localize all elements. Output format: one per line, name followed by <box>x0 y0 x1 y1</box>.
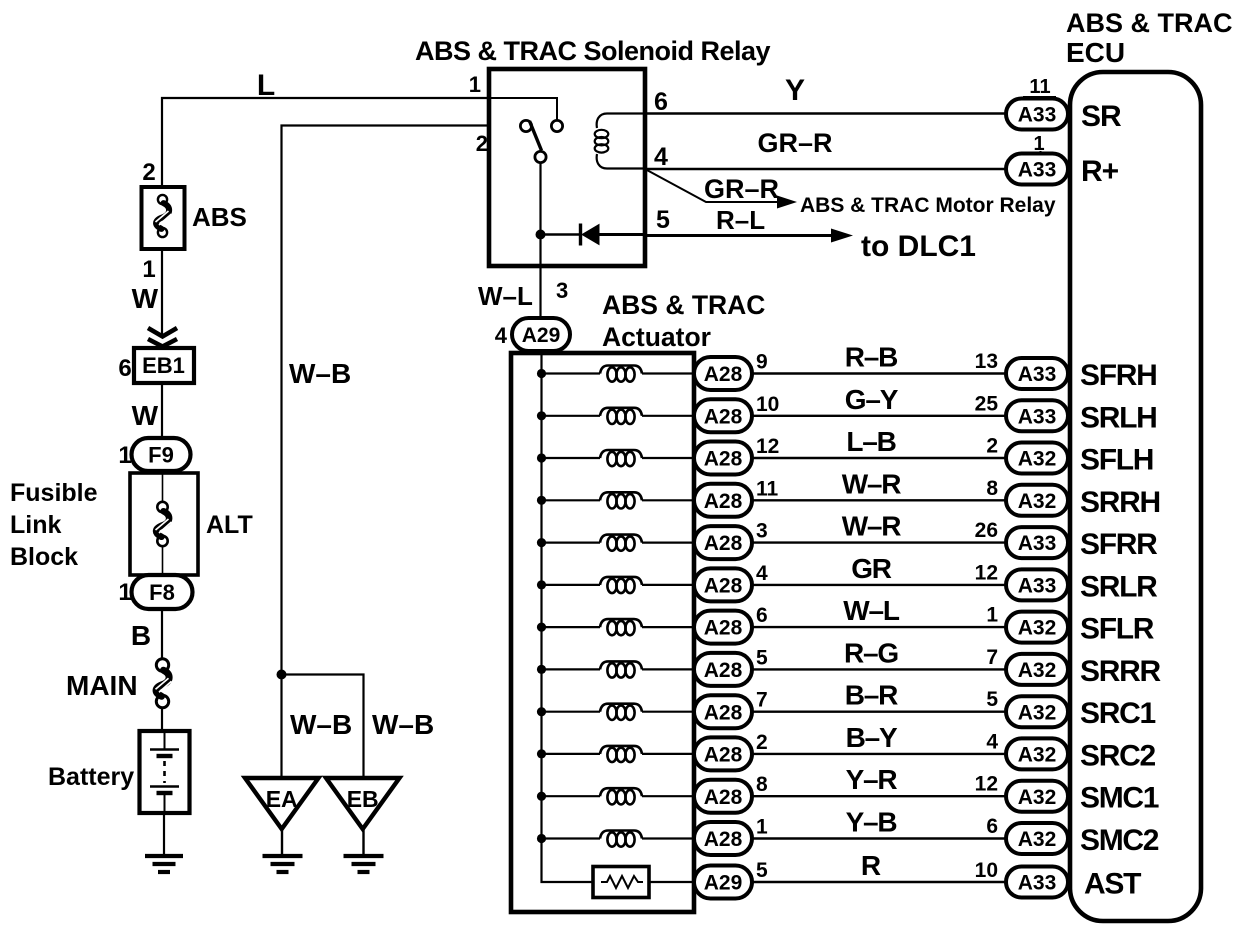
svg-text:2: 2 <box>986 435 998 458</box>
svg-text:EB1: EB1 <box>142 353 185 378</box>
wire bus (actuator feed) <box>542 353 594 882</box>
svg-text:SMC1: SMC1 <box>1080 782 1159 815</box>
label SMC1 (ECU pin name) <box>1080 782 1159 815</box>
battery <box>140 731 190 813</box>
solenoid coil (SFRR valve) <box>537 535 695 551</box>
label W-B (EB branch) <box>372 709 434 740</box>
wire W&#8211;L (SFLR) <box>752 626 1006 628</box>
svg-text:GR–R: GR–R <box>704 174 779 204</box>
title ABS & TRAC ECU <box>1066 8 1233 68</box>
node (relay pin 3 junction) <box>536 230 546 240</box>
svg-text:A28: A28 <box>704 532 743 555</box>
svg-text:SRRR: SRRR <box>1080 655 1161 688</box>
svg-text:6: 6 <box>756 604 768 627</box>
connector A28 (SFLR) <box>694 611 752 644</box>
connector A28 (SRRH) <box>694 484 752 517</box>
label 11 (ECU SR pin) <box>1023 76 1056 98</box>
svg-text:W: W <box>132 400 159 431</box>
connector A33 (R+) <box>1006 154 1068 185</box>
svg-text:25: 25 <box>975 392 999 415</box>
label Y (wire color) <box>785 74 805 107</box>
svg-text:Battery: Battery <box>48 763 134 791</box>
label 12 (A33 pin) <box>975 561 998 584</box>
svg-text:ABS & TRAC Solenoid Relay: ABS & TRAC Solenoid Relay <box>415 36 771 66</box>
title ABS & TRAC Solenoid Relay <box>415 36 771 66</box>
label 4 (A32 pin) <box>986 730 998 753</box>
label W&#8211;R (wire color) <box>842 511 902 542</box>
svg-text:A33: A33 <box>1018 872 1057 895</box>
wire GR-R (relay pin 4 to ECU R+) <box>645 168 1008 170</box>
label MAIN <box>66 670 138 701</box>
svg-text:W–L: W–L <box>843 595 900 626</box>
label W-B (EA branch) <box>290 709 352 740</box>
label ALT <box>206 511 253 539</box>
label R&#8211;B (wire color) <box>845 342 897 373</box>
label 26 (A33 pin) <box>975 519 998 542</box>
label SR (ECU pin name) <box>1081 100 1122 133</box>
svg-text:12: 12 <box>975 561 998 584</box>
solenoid coil (SFLH valve) <box>537 450 695 466</box>
svg-text:W: W <box>132 283 159 314</box>
svg-text:R–B: R–B <box>845 342 897 373</box>
connector A32 (SRRH) <box>1006 485 1068 516</box>
connector A28 (SRC2) <box>694 737 752 770</box>
solenoid coil (SRC2 valve) <box>537 746 695 762</box>
label 9 (A28 pin) <box>756 351 768 374</box>
wire L (battery feed to relay pin 1) <box>162 98 489 187</box>
label 7 (A32 pin) <box>986 646 998 669</box>
svg-text:2: 2 <box>756 731 768 754</box>
svg-text:4: 4 <box>654 143 668 171</box>
solenoid coil (SRLH valve) <box>537 408 695 424</box>
relay switch contact (from pin 1) <box>551 120 562 131</box>
label SRC1 (ECU pin name) <box>1080 697 1155 730</box>
connector F8 <box>132 575 193 609</box>
label R&#8211;G (wire color) <box>844 637 898 668</box>
wire W (EB1 to F9) <box>161 383 163 439</box>
svg-text:B–Y: B–Y <box>846 722 898 753</box>
svg-text:W–B: W–B <box>372 709 434 740</box>
svg-text:A33: A33 <box>1018 405 1057 428</box>
svg-text:Y–B: Y–B <box>846 807 897 838</box>
svg-text:A32: A32 <box>1018 617 1057 640</box>
svg-text:A32: A32 <box>1018 659 1057 682</box>
svg-text:B: B <box>131 620 151 651</box>
label SFLH (ECU pin name) <box>1080 444 1153 477</box>
label 2 (fuse ABS pin) <box>142 159 155 186</box>
label SRRR (ECU pin name) <box>1080 655 1161 688</box>
label 1 (A28 pin) <box>756 816 768 839</box>
svg-text:A32: A32 <box>1018 701 1057 724</box>
fuse ABS <box>142 187 185 249</box>
svg-text:A28: A28 <box>704 405 743 428</box>
connector A28 (SRC1) <box>694 695 752 728</box>
label SMC2 (ECU pin name) <box>1080 824 1159 857</box>
svg-text:SR: SR <box>1081 100 1122 133</box>
wire L&#8211;B (SFLH) <box>752 457 1006 459</box>
fuse ALT <box>156 473 172 575</box>
svg-text:W–R: W–R <box>842 468 902 499</box>
svg-text:A28: A28 <box>704 363 743 386</box>
label W&#8211;R (wire color) <box>842 468 902 499</box>
label SRLH (ECU pin name) <box>1080 401 1156 434</box>
svg-text:26: 26 <box>975 519 998 542</box>
svg-text:7: 7 <box>756 689 768 712</box>
label Battery <box>48 763 134 791</box>
svg-text:F9: F9 <box>148 442 174 467</box>
solenoid coil (SRRR valve) <box>537 661 695 677</box>
svg-text:A33: A33 <box>1018 363 1057 386</box>
svg-text:2: 2 <box>142 159 155 186</box>
label GR (wire color) <box>851 553 892 584</box>
connector A28 (SMC1) <box>694 780 752 813</box>
label 6 (relay pin) <box>654 88 668 116</box>
svg-text:A32: A32 <box>1018 786 1057 809</box>
svg-text:ABS & TRAC: ABS & TRAC <box>1066 8 1233 38</box>
svg-text:SRLR: SRLR <box>1080 570 1158 603</box>
svg-text:A28: A28 <box>704 786 743 809</box>
wire B (F8 to fuse MAIN) <box>161 609 163 659</box>
svg-text:8: 8 <box>986 477 998 500</box>
connector A32 (SRC1) <box>1006 696 1068 727</box>
label G&#8211;Y (wire color) <box>845 384 899 415</box>
svg-text:F8: F8 <box>149 580 175 605</box>
connector A29 (relay output) <box>512 318 570 351</box>
svg-text:A28: A28 <box>704 617 743 640</box>
label 6 (A32 pin) <box>986 815 998 838</box>
connector A32 (SMC2) <box>1006 823 1068 854</box>
svg-text:SRC1: SRC1 <box>1080 697 1155 730</box>
label 12 (A32 pin) <box>975 773 998 796</box>
svg-text:Y–R: Y–R <box>846 764 898 795</box>
solenoid coil (SMC1 valve) <box>537 788 695 804</box>
svg-text:SFRR: SFRR <box>1080 528 1158 561</box>
svg-text:A28: A28 <box>704 659 743 682</box>
connector A28 (SRLR) <box>694 568 752 601</box>
svg-text:ECU: ECU <box>1066 37 1125 68</box>
svg-text:A28: A28 <box>704 743 743 766</box>
label 6 (A28 pin) <box>756 604 768 627</box>
svg-text:3: 3 <box>556 278 568 303</box>
wire W&#8211;R (SFRR) <box>752 541 1006 543</box>
fusible link block box <box>130 473 198 575</box>
wire R&#8211;B (SFRH) <box>752 372 1006 374</box>
svg-text:EB: EB <box>347 786 379 812</box>
svg-text:A33: A33 <box>1018 574 1057 597</box>
svg-text:5: 5 <box>986 688 998 711</box>
connector A33 (AST) <box>1006 867 1068 898</box>
svg-text:1: 1 <box>142 256 155 283</box>
label 4 (relay pin) <box>654 143 668 171</box>
wire B&#8211;Y (SRC2) <box>752 753 1006 755</box>
label SFRR (ECU pin name) <box>1080 528 1158 561</box>
svg-text:A28: A28 <box>704 574 743 597</box>
connector A32 (SFLR) <box>1006 612 1068 643</box>
svg-text:10: 10 <box>975 859 998 882</box>
label ABS <box>192 202 247 232</box>
label SFRH (ECU pin name) <box>1080 359 1156 392</box>
svg-text:1: 1 <box>756 816 768 839</box>
svg-text:6: 6 <box>118 355 131 382</box>
label Fusible Link Block <box>10 479 98 571</box>
wire Y&#8211;R (SMC1) <box>752 795 1006 797</box>
relay switch arm <box>530 121 542 151</box>
svg-text:1: 1 <box>118 442 131 469</box>
connector A33 (SRLR) <box>1006 569 1068 600</box>
label 2 (A28 pin) <box>756 731 768 754</box>
svg-text:R–G: R–G <box>844 637 898 668</box>
svg-text:B–R: B–R <box>845 680 898 711</box>
label 1 (A32 pin) <box>986 604 998 627</box>
ground (battery) <box>145 856 183 872</box>
solenoid coil (SFRH valve) <box>537 366 695 382</box>
svg-text:Block: Block <box>10 543 78 571</box>
ECU box (ABS & TRAC ECU) <box>1070 72 1201 921</box>
solenoid coil (SFLR valve) <box>537 619 695 635</box>
diode (relay, to pin 5) <box>545 224 645 246</box>
wire W (fuse ABS to splice) <box>161 249 163 338</box>
relay box (ABS & TRAC Solenoid Relay) <box>489 69 645 266</box>
wire B&#8211;R (SRC1) <box>752 711 1006 713</box>
label 3 (A28 pin) <box>756 520 768 543</box>
connector F9 <box>132 438 191 471</box>
svg-text:3: 3 <box>756 520 768 543</box>
wire W&#8211;R (SRRH) <box>752 499 1006 501</box>
svg-text:A33: A33 <box>1018 159 1057 182</box>
svg-text:A32: A32 <box>1018 448 1057 471</box>
svg-text:GR: GR <box>851 553 892 584</box>
resistor (actuator check resistor) <box>593 867 695 898</box>
svg-text:GR–R: GR–R <box>757 128 832 158</box>
label W <box>132 400 159 431</box>
label R-L (wire color) <box>716 205 765 235</box>
label SRRH (ECU pin name) <box>1080 486 1160 519</box>
svg-text:ALT: ALT <box>206 511 253 539</box>
connector A28 (SMC2) <box>694 822 752 855</box>
svg-text:A28: A28 <box>704 828 743 851</box>
svg-text:9: 9 <box>756 351 768 374</box>
svg-text:11: 11 <box>1029 76 1050 98</box>
wire Y (relay pin 6 to ECU SR) <box>645 112 1008 114</box>
svg-text:Fusible: Fusible <box>10 479 98 507</box>
solenoid coil (SRLR valve) <box>537 577 695 593</box>
junction node (W-B split) <box>277 670 287 680</box>
label SRC2 (ECU pin name) <box>1080 739 1155 772</box>
svg-text:13: 13 <box>975 350 998 373</box>
label 10 (A28 pin) <box>756 393 779 416</box>
wire W-B branch to ground EB <box>282 675 364 779</box>
wire (battery to ground) <box>163 813 165 855</box>
connector A33 (SFRH) <box>1006 358 1068 389</box>
svg-text:A33: A33 <box>1018 104 1057 127</box>
label B&#8211;Y (wire color) <box>846 722 898 753</box>
solenoid coil (SRRH valve) <box>537 492 695 508</box>
label 1 (ECU R+ pin) <box>1033 133 1044 155</box>
label 11 (A28 pin) <box>756 477 779 500</box>
svg-text:EA: EA <box>266 786 298 812</box>
connector A28 (SFRR) <box>694 526 752 559</box>
label AST (ECU pin name) <box>1084 868 1141 901</box>
svg-text:A32: A32 <box>1018 828 1057 851</box>
svg-text:W–B: W–B <box>290 709 352 740</box>
splice chevron (into EB1) <box>148 328 177 347</box>
svg-text:to DLC1: to DLC1 <box>861 230 976 263</box>
wire G&#8211;Y (SRLH) <box>752 415 1006 417</box>
label 6 (EB1 pin) <box>118 355 131 382</box>
svg-text:ABS & TRAC Motor Relay: ABS & TRAC Motor Relay <box>800 194 1056 217</box>
label Y&#8211;R (wire color) <box>846 764 898 795</box>
label L (wire color) <box>257 69 275 102</box>
label R (wire color) <box>861 850 881 881</box>
svg-text:4: 4 <box>495 323 508 348</box>
svg-text:6: 6 <box>986 815 998 838</box>
svg-text:ABS & TRAC: ABS & TRAC <box>602 290 765 320</box>
connector EB1 <box>134 348 194 383</box>
svg-text:W–B: W–B <box>289 358 351 389</box>
svg-text:SFLR: SFLR <box>1080 613 1155 646</box>
label 3 (relay pin) <box>556 278 568 303</box>
label 2 (relay pin) <box>476 131 488 156</box>
svg-text:A33: A33 <box>1018 532 1057 555</box>
connector A28 (SFLH) <box>694 442 752 475</box>
svg-text:Y: Y <box>785 74 805 107</box>
label W-L <box>478 281 533 311</box>
label W-B (main vertical) <box>289 358 351 389</box>
connector A33 (SR) <box>1006 99 1068 130</box>
label 1 (F9 pin) <box>118 442 131 469</box>
wire Y&#8211;B (SMC2) <box>752 837 1006 839</box>
label 12 (A28 pin) <box>756 435 779 458</box>
wire (fuse MAIN to battery) <box>161 708 163 732</box>
connector A28 (SRRR) <box>694 653 752 686</box>
svg-text:SRLH: SRLH <box>1080 401 1156 434</box>
label R+ (ECU pin name) <box>1081 155 1119 188</box>
ground EA <box>245 778 319 872</box>
label SFLR (ECU pin name) <box>1080 613 1155 646</box>
actuator box <box>511 353 694 912</box>
label 1 (relay pin) <box>469 72 481 97</box>
svg-text:W–L: W–L <box>478 281 533 311</box>
label 1 (fuse ABS pin) <box>142 256 155 283</box>
solenoid coil (SMC2 valve) <box>537 831 695 847</box>
label Y&#8211;B (wire color) <box>846 807 897 838</box>
svg-text:11: 11 <box>756 477 779 500</box>
connector A32 (SFLH) <box>1006 443 1068 474</box>
relay coil <box>595 114 645 169</box>
svg-text:W–R: W–R <box>842 511 902 542</box>
svg-text:1: 1 <box>118 579 131 606</box>
svg-text:G–Y: G–Y <box>845 384 899 415</box>
label B&#8211;R (wire color) <box>845 680 898 711</box>
svg-text:R–L: R–L <box>716 205 765 235</box>
svg-text:A29: A29 <box>704 872 743 895</box>
label 5 (relay pin) <box>656 206 670 234</box>
connector A32 (SRC2) <box>1006 738 1068 769</box>
svg-text:SMC2: SMC2 <box>1080 824 1159 857</box>
svg-text:R+: R+ <box>1081 155 1119 188</box>
label B <box>131 620 151 651</box>
label 5 (A29 pin) <box>756 859 768 882</box>
svg-text:A28: A28 <box>704 448 743 471</box>
svg-text:4: 4 <box>986 730 998 753</box>
label 4 (A29 pin) <box>495 323 508 348</box>
svg-text:R: R <box>861 850 881 881</box>
connector A29 (resistor row) <box>694 866 752 899</box>
wire R-L (relay pin 5 to DLC1) <box>645 229 853 243</box>
svg-text:5: 5 <box>656 206 670 234</box>
solenoid coil (SRC1 valve) <box>537 704 695 720</box>
svg-text:7: 7 <box>986 646 998 669</box>
label to DLC1 <box>861 230 976 263</box>
svg-text:6: 6 <box>654 88 668 116</box>
svg-text:MAIN: MAIN <box>66 670 138 701</box>
label GR-R (wire color) <box>757 128 832 158</box>
svg-text:1: 1 <box>469 72 481 97</box>
svg-text:SFLH: SFLH <box>1080 444 1153 477</box>
relay internal wire pin 1 to fixed contact <box>489 98 557 120</box>
svg-text:A29: A29 <box>522 324 561 347</box>
svg-text:A32: A32 <box>1018 743 1057 766</box>
label 25 (A33 pin) <box>975 392 999 415</box>
label 7 (A28 pin) <box>756 689 768 712</box>
svg-text:1: 1 <box>986 604 998 627</box>
svg-text:12: 12 <box>756 435 779 458</box>
svg-text:SRC2: SRC2 <box>1080 739 1155 772</box>
wire R (AST) <box>752 881 1006 883</box>
wire W-B (relay pin 2 to ground EA) <box>282 126 490 779</box>
svg-text:SFRH: SFRH <box>1080 359 1156 392</box>
relay switch contact (from pin 2) <box>520 120 531 131</box>
svg-text:A28: A28 <box>704 490 743 513</box>
svg-text:8: 8 <box>756 773 768 796</box>
label 8 (A32 pin) <box>986 477 998 500</box>
svg-text:A28: A28 <box>704 701 743 724</box>
label GR-R (branch wire color) <box>704 174 779 204</box>
svg-text:A32: A32 <box>1018 490 1057 513</box>
label ABS & TRAC Motor Relay <box>800 194 1056 217</box>
wire GR (SRLR) <box>752 584 1006 586</box>
label 10 (A33 pin) <box>975 859 998 882</box>
label SRLR (ECU pin name) <box>1080 570 1158 603</box>
svg-text:5: 5 <box>756 859 768 882</box>
wire R&#8211;G (SRRR) <box>752 668 1006 670</box>
label 5 (A32 pin) <box>986 688 998 711</box>
fuse MAIN <box>156 659 172 708</box>
label 1 (F8 pin) <box>118 579 131 606</box>
svg-text:10: 10 <box>756 393 779 416</box>
label 4 (A28 pin) <box>756 562 768 585</box>
svg-text:2: 2 <box>476 131 488 156</box>
label 2 (A32 pin) <box>986 435 998 458</box>
label W&#8211;L (wire color) <box>843 595 900 626</box>
label L&#8211;B (wire color) <box>846 426 895 457</box>
svg-text:ABS: ABS <box>192 202 247 232</box>
connector A32 (SRRR) <box>1006 654 1068 685</box>
connector A28 (SRLH) <box>694 399 752 432</box>
svg-text:5: 5 <box>756 646 768 669</box>
connector A32 (SMC1) <box>1006 781 1068 812</box>
connector A28 (SFRH) <box>694 357 752 390</box>
svg-text:SRRH: SRRH <box>1080 486 1160 519</box>
wire W-L (relay switch to connector A29) <box>539 163 541 320</box>
connector A33 (SRLH) <box>1006 400 1068 431</box>
svg-text:AST: AST <box>1084 868 1141 901</box>
label 8 (A28 pin) <box>756 773 768 796</box>
label W <box>132 283 159 314</box>
ground EB <box>326 778 400 872</box>
svg-text:4: 4 <box>756 562 768 585</box>
svg-text:L–B: L–B <box>846 426 895 457</box>
